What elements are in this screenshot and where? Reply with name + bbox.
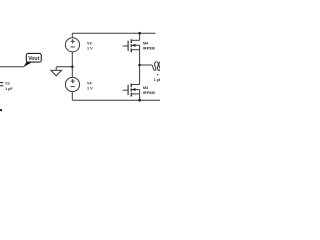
- svg-text:IRF530: IRF530: [143, 91, 155, 95]
- wire switch-node vertical M4 source to M3 drain: [139, 45, 141, 84]
- wire to ground: [56, 66, 72, 68]
- node junction dot between sources: [71, 66, 74, 69]
- corner mark (clipped): [0, 109, 2, 111]
- svg-text:M3: M3: [143, 86, 148, 90]
- inductor L1: [140, 62, 161, 71]
- svg-text:IRF530: IRF530: [143, 47, 155, 51]
- node dot switch node: [138, 64, 141, 67]
- node dot M4 drain on rail: [138, 32, 141, 35]
- svg-text:1 µF: 1 µF: [5, 87, 13, 91]
- voltage source V3: [65, 33, 79, 67]
- wire M3 source to bottom rail: [139, 90, 141, 101]
- svg-text:C1: C1: [5, 82, 10, 86]
- node dot M3 source on bottom rail: [138, 99, 141, 102]
- transistor M3: [123, 84, 140, 97]
- capacitor C1: [0, 83, 3, 86]
- wire Vout net: [0, 66, 24, 68]
- wire top rail: [72, 32, 155, 34]
- label L1 (clipped at edge): [157, 74, 158, 75]
- wire to inductor: [140, 64, 152, 66]
- svg-text:1 V: 1 V: [87, 87, 93, 91]
- wire bottom rail: [72, 99, 160, 101]
- voltage source V4: [65, 67, 79, 100]
- svg-text:1 V: 1 V: [87, 47, 93, 51]
- svg-text:V3: V3: [87, 42, 92, 46]
- svg-text:Vout: Vout: [28, 56, 39, 62]
- svg-text:1 µH: 1 µH: [154, 78, 160, 82]
- ground: [51, 67, 62, 76]
- net flag Vout: [23, 61, 31, 68]
- transistor M4: [123, 33, 140, 52]
